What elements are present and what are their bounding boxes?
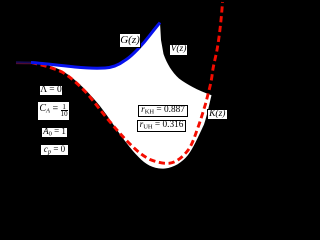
- red dashed curve K(z): [31, 2, 223, 163]
- label box G(z): [119, 33, 141, 48]
- label box K(z) script K: [207, 109, 228, 120]
- label box V(z): [169, 44, 188, 56]
- label box A_0 = 1: [41, 127, 68, 138]
- white corridor region enclosed by the two curves: [31, 23, 212, 169]
- faint dark tail of curves at far left: [16, 61, 31, 64]
- label box Lambda = 0: [39, 85, 63, 96]
- label box c_p = 0: [40, 144, 69, 156]
- label box C_A = 1/10: [37, 101, 70, 122]
- blue solid curve G(z): [31, 23, 160, 69]
- label box r_KH = 0.887: [138, 105, 188, 117]
- label box r_UH = 0.316: [137, 120, 186, 132]
